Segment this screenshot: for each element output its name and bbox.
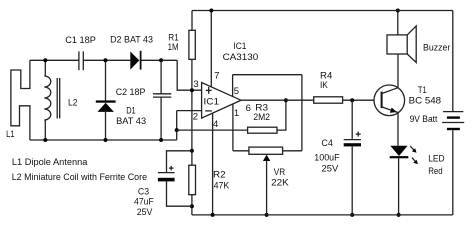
buzzer: [387, 11, 416, 63]
svg-text:25V: 25V: [137, 207, 153, 218]
resistor R2: [189, 165, 196, 195]
wire op-amp output: [241, 99, 314, 101]
svg-text:CA3130: CA3130: [223, 52, 259, 63]
svg-text:L1 Dipole Antenna: L1 Dipole Antenna: [12, 157, 88, 168]
svg-text:L1: L1: [6, 129, 15, 140]
node dot C4 / ground rail: [350, 213, 354, 217]
node dot bottom rail / C2: [159, 138, 163, 142]
node dot bottom rail / L2: [43, 138, 47, 142]
svg-text:IC1: IC1: [204, 97, 220, 108]
node dot top rail / L2: [43, 58, 47, 62]
node dot top rail / C2: [159, 58, 163, 62]
wire top supply rail: [192, 10, 453, 12]
wire pin2 horizontal: [177, 110, 202, 112]
node dot top rail / buzzer: [396, 9, 400, 13]
wire offset box right: [301, 75, 303, 151]
svg-text:D2 BAT 43: D2 BAT 43: [110, 34, 153, 45]
wire top detector rail segment 2: [83, 59, 130, 61]
svg-text:IK: IK: [320, 80, 328, 91]
svg-text:IC1: IC1: [233, 41, 246, 52]
svg-text:L2: L2: [68, 97, 78, 108]
op-amp plus sign: [206, 87, 212, 94]
resistor R3: [248, 127, 277, 133]
svg-text:BC 548: BC 548: [409, 96, 442, 107]
node dot pin2 drop / node line: [175, 128, 179, 132]
wire pin 4: [212, 113, 214, 215]
antenna L1: [11, 60, 30, 140]
battery 9V: [442, 11, 464, 215]
potentiometer VR: [233, 147, 302, 215]
svg-text:25V: 25V: [322, 164, 339, 175]
capacitor C3: [158, 151, 192, 206]
wire pin 5 stub: [232, 75, 234, 97]
diode D1: [96, 60, 116, 140]
svg-text:3: 3: [193, 79, 198, 90]
svg-text:22K: 22K: [271, 178, 289, 189]
transistor Q1 T1: [374, 85, 405, 116]
op-amp U1 IC1 triangle: [202, 83, 241, 119]
svg-text:BAT 43: BAT 43: [116, 116, 146, 127]
node dot pin3 / R1: [190, 88, 194, 92]
wire pin3 feed: [177, 60, 201, 90]
wire R1 to R2 vertical: [191, 59, 193, 165]
op-amp minus sign: [205, 110, 212, 112]
wire bottom detector rail: [30, 139, 177, 141]
resistor R1: [189, 30, 195, 59]
wire collector: [397, 54, 399, 88]
capacitor C4: [344, 100, 361, 215]
svg-text:5: 5: [234, 86, 239, 97]
node dot top rail / D1: [104, 58, 108, 62]
wire emitter: [397, 113, 399, 146]
svg-text:Red: Red: [428, 166, 443, 177]
svg-text:C4: C4: [321, 138, 333, 149]
svg-text:C2 18P: C2 18P: [116, 87, 146, 98]
svg-text:C1 18P: C1 18P: [65, 35, 96, 46]
wire R1 top lead: [191, 11, 193, 31]
svg-text:7: 7: [214, 71, 219, 82]
resistor R4: [314, 97, 343, 103]
svg-text:6: 6: [246, 103, 251, 114]
inductor L2: [44, 60, 51, 140]
node dot C3 tap: [190, 149, 194, 153]
svg-text:100uF: 100uF: [314, 152, 339, 163]
LED arrow 1: [410, 146, 416, 153]
LED arrow 2: [412, 158, 418, 165]
wire top detector rail: [30, 59, 79, 61]
wire pin2 drop: [176, 111, 178, 140]
ferrite core of L2: [57, 78, 60, 119]
svg-text:LED: LED: [428, 154, 445, 165]
svg-text:T1: T1: [418, 85, 427, 96]
wire R2 bottom lead: [191, 195, 193, 215]
wire pin 7: [210, 11, 212, 87]
svg-text:L2 Miniature Coil with Ferrite: L2 Miniature Coil with Ferrite Core: [12, 172, 147, 183]
wire R3 right lead: [277, 100, 286, 130]
capacitor C2: [153, 60, 171, 140]
node dot C3 bottom / R2 lead: [190, 204, 194, 208]
svg-text:D1: D1: [126, 106, 136, 117]
wire inverting node horizontal: [177, 129, 248, 131]
node dot wiper / ground rail: [265, 213, 269, 217]
node dot top rail / pin7: [209, 9, 213, 13]
node dot output / R3: [284, 98, 288, 102]
diode D2: [130, 51, 140, 70]
svg-text:VR: VR: [274, 167, 286, 178]
node dot pin4 / ground rail: [211, 213, 215, 217]
svg-text:Buzzer: Buzzer: [423, 42, 450, 53]
svg-text:2M2: 2M2: [253, 112, 270, 123]
svg-text:4: 4: [213, 119, 218, 130]
capacitor C1: [79, 51, 83, 70]
svg-text:R2: R2: [213, 170, 226, 181]
svg-text:2: 2: [193, 112, 198, 123]
svg-text:1: 1: [234, 108, 239, 119]
node dot LED / ground rail: [397, 213, 401, 217]
svg-text:9V Batt: 9V Batt: [410, 114, 438, 125]
node dot bottom rail / D1: [104, 138, 108, 142]
wire top detector rail segment 3: [141, 59, 178, 61]
wire ground rail: [192, 214, 453, 216]
LED D3: [390, 146, 409, 215]
svg-text:1M: 1M: [168, 42, 179, 53]
wire offset box top: [233, 74, 302, 76]
wire base feed: [343, 99, 382, 101]
svg-text:47K: 47K: [214, 180, 230, 191]
wire pin 1 stub: [232, 104, 234, 151]
node dot base / C4: [350, 98, 354, 102]
